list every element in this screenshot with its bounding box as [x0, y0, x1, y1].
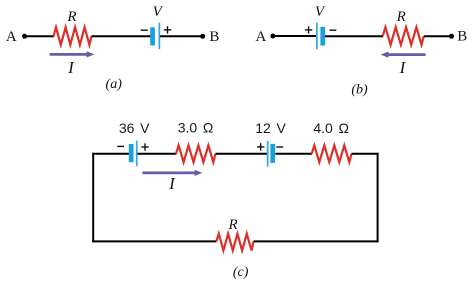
svg-text:I: I [399, 58, 407, 77]
svg-text:12 V: 12 V [255, 120, 286, 136]
wire 36V battery to 3.0 ohm resistor [138, 153, 177, 155]
resistor R (bottom) [216, 234, 253, 251]
battery V positive plate (thin) [159, 23, 161, 50]
node A terminal dot [22, 34, 27, 39]
battery V positive plate (thin) [316, 23, 318, 50]
svg-text:V: V [315, 4, 326, 20]
current arrow I [50, 51, 95, 57]
wire 12V battery to 4.0 ohm resistor [275, 153, 312, 155]
svg-text:R: R [396, 9, 406, 25]
minus sign (36V) [117, 145, 124, 147]
plus sign [164, 29, 171, 31]
resistor R [383, 27, 424, 45]
minus sign (12V) [276, 146, 283, 148]
wire 3.0 ohm to 12V battery [216, 153, 268, 155]
minus sign [329, 29, 336, 31]
minus sign [141, 29, 148, 31]
battery 36V positive plate (thin) [136, 141, 138, 167]
bottom wire: resistor R to bottom-right corner [254, 240, 379, 242]
svg-text:I: I [67, 58, 75, 77]
battery 12V negative plate (thick) [270, 144, 275, 163]
svg-text:36 V: 36 V [119, 120, 150, 136]
svg-text:A: A [6, 29, 17, 45]
resistor R [54, 27, 92, 45]
wire battery to resistor R [325, 35, 383, 37]
battery 36V negative plate (thick) [129, 144, 134, 162]
svg-text:4.0 Ω: 4.0 Ω [313, 120, 349, 136]
svg-text:V: V [153, 4, 164, 20]
battery V negative plate (thick) [150, 27, 155, 45]
svg-text:3.0 Ω: 3.0 Ω [178, 120, 214, 136]
node A terminal dot [270, 34, 275, 39]
svg-text:(b): (b) [351, 83, 368, 98]
wire A to resistor R [25, 35, 54, 37]
current arrow I [142, 170, 202, 176]
node B terminal dot [449, 34, 454, 39]
svg-text:B: B [209, 29, 219, 45]
svg-text:B: B [457, 28, 467, 44]
svg-text:R: R [228, 217, 238, 233]
svg-text:(a): (a) [106, 77, 123, 92]
plus sign (12V) [257, 146, 264, 148]
left wire of loop [92, 153, 94, 243]
svg-text:A: A [255, 29, 266, 45]
current arrow I (pointing left) [381, 52, 426, 58]
wire resistor to battery V [92, 35, 151, 37]
battery V negative plate (thick) [320, 27, 325, 46]
svg-text:(c): (c) [233, 265, 249, 280]
wire battery to node B [160, 35, 202, 37]
svg-text:I: I [168, 174, 176, 193]
top wire: corner to 36V battery [92, 153, 129, 155]
bottom wire: corner to resistor R [92, 240, 216, 242]
plus sign (36V) [141, 146, 148, 148]
battery 12V positive plate (thin) [267, 141, 269, 167]
resistor 3.0 ohm [176, 145, 216, 162]
resistor 4.0 ohm [312, 145, 352, 162]
wire resistor to node B [424, 35, 450, 37]
svg-text:R: R [66, 9, 76, 25]
plus sign [305, 29, 312, 31]
top wire: 4.0 ohm to top-right corner [352, 153, 379, 155]
node B terminal dot [200, 34, 205, 39]
right wire of loop [377, 153, 379, 243]
wire A to battery V [273, 35, 316, 37]
